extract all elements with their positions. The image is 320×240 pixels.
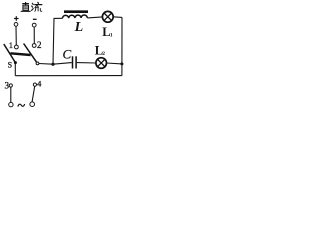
- wire left vertical: [53, 18, 54, 64]
- AC terminal left: [9, 102, 13, 106]
- lamp L2: [96, 58, 107, 69]
- svg-text:2: 2: [102, 51, 105, 57]
- label DC 直: [21, 3, 30, 12]
- svg-text:4: 4: [37, 79, 42, 89]
- contact 1: [15, 45, 19, 49]
- contact 3: [9, 84, 12, 87]
- DC plus sign: [14, 16, 19, 21]
- contact 2: [32, 44, 36, 48]
- wire capacitor to lamp L2: [77, 62, 96, 64]
- wire junction to capacitor: [53, 63, 72, 65]
- wire lamp L1 to right corner: [113, 16, 122, 19]
- switch link bar: [10, 53, 30, 55]
- label DC 流: [32, 2, 42, 11]
- wire right pole to junction: [39, 63, 53, 66]
- wire switch left pole down to bottom: [14, 64, 16, 76]
- wire DC+ to contact 1: [15, 26, 17, 45]
- node junction right: [120, 62, 123, 65]
- wire contact 3 to AC terminal: [10, 87, 12, 102]
- svg-text:L: L: [74, 20, 84, 35]
- lamp L1: [102, 11, 113, 22]
- svg-text:S: S: [8, 60, 12, 69]
- switch left pivot dot: [14, 61, 17, 64]
- DC terminal - circle: [32, 23, 36, 27]
- svg-text:C: C: [62, 46, 71, 61]
- switch S right blade: [24, 44, 37, 63]
- inductor iron core: [64, 10, 88, 13]
- wire contact 4 to AC terminal: [32, 86, 35, 102]
- inductor L coil: [62, 15, 87, 18]
- wire right vertical: [121, 17, 123, 75]
- DC minus sign: [33, 18, 37, 20]
- switch S left blade: [4, 44, 16, 63]
- switch right pivot: [36, 62, 39, 65]
- wire lamp L2 to right junction: [107, 62, 122, 65]
- wire coil to lamp L1: [87, 17, 102, 18]
- wire top left segment: [54, 17, 63, 19]
- capacitor C plates: [73, 56, 77, 68]
- label AC tilde: [18, 104, 25, 107]
- svg-text:2: 2: [37, 40, 42, 50]
- wire DC- to contact 2: [33, 27, 35, 44]
- svg-text:1: 1: [9, 40, 13, 50]
- wire bottom: [15, 75, 122, 77]
- AC terminal right: [30, 102, 35, 107]
- node junction left: [51, 63, 54, 66]
- svg-text:1: 1: [110, 32, 113, 38]
- contact 4: [33, 83, 36, 86]
- DC terminal + circle: [14, 23, 18, 27]
